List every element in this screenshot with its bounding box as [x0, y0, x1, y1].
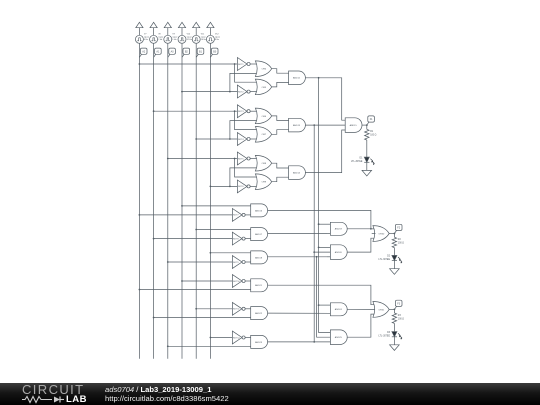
wire XNOR2 to AND24 [318, 304, 331, 306]
svg-text:4 Hz: 4 Hz [144, 39, 148, 41]
input port arrow A1 [150, 22, 157, 35]
inverter NOT10 [232, 275, 250, 288]
wire OR30 output [389, 233, 395, 235]
svg-text:OR6: OR6 [262, 116, 267, 118]
node flag B0 [210, 48, 218, 57]
wire A riser [235, 159, 258, 178]
and-gate AND16 [251, 204, 268, 217]
wire B1 to AND17 [195, 229, 250, 231]
svg-text:OR31: OR31 [379, 309, 385, 311]
inverter NOT8 [232, 232, 250, 245]
svg-text:AND16: AND16 [255, 209, 263, 212]
svg-text:V8: V8 [158, 34, 161, 36]
and-gate AND23 [251, 335, 268, 348]
wire A1 to AND22 [153, 317, 251, 319]
wire OR31 output [389, 309, 395, 311]
voltage source V10 [178, 34, 192, 44]
wire R2 to D2 [393, 248, 395, 256]
wire XNOR1 to AND20 [313, 251, 330, 257]
svg-text:AND13: AND13 [293, 124, 301, 127]
svg-text:NOT10: NOT10 [233, 281, 241, 283]
svg-text:AND22: AND22 [255, 312, 263, 315]
wire XNOR2 to AND19 [318, 223, 331, 233]
svg-text:OR8: OR8 [262, 163, 267, 165]
svg-text:squar: squar [215, 36, 220, 38]
or-gate OR30 [372, 226, 390, 242]
svg-text:OR5: OR5 [262, 87, 267, 89]
svg-text:R2: R2 [398, 239, 402, 241]
svg-text:squar: squar [144, 36, 149, 38]
svg-text:100 Ω: 100 Ω [398, 243, 404, 245]
svg-text:V11: V11 [201, 34, 205, 36]
voltage source V12 [206, 34, 220, 44]
svg-text:NOT8: NOT8 [233, 238, 239, 240]
inverter NOT3 [237, 105, 257, 118]
svg-text:AND19: AND19 [335, 228, 343, 231]
svg-text:AND12: AND12 [293, 77, 301, 80]
node flag F2 [394, 224, 402, 233]
svg-text:NOT2: NOT2 [238, 91, 244, 93]
wire AND18 to AND20 [268, 256, 327, 258]
wire B0 to AND18 [210, 252, 251, 254]
wire A1 to NOT8 [153, 238, 233, 240]
voltage source V7 [135, 34, 149, 44]
input port arrow B0 [207, 22, 214, 35]
and-gate AND14 [289, 166, 306, 180]
node flag B2 [182, 48, 190, 57]
wire A2 to NOT input [139, 63, 238, 65]
wire A0 to NOT9 [167, 261, 232, 263]
svg-text:OR9: OR9 [262, 182, 267, 184]
wire OR to AND [272, 116, 289, 121]
or-gate OR7 [255, 127, 271, 143]
svg-text:AND17: AND17 [255, 233, 263, 236]
and-gate AND13 [289, 118, 306, 132]
svg-text:NOT4: NOT4 [238, 139, 244, 141]
wire AND23 to AND25 [268, 341, 331, 343]
wire D2 to ground [393, 261, 395, 269]
resistor R2 [392, 237, 404, 247]
wire AND17 to AND19 [268, 232, 327, 234]
LED D3 [379, 332, 403, 340]
svg-text:LTL-307EE: LTL-307EE [379, 335, 391, 337]
svg-text:OR7: OR7 [262, 134, 267, 136]
or-gate OR9 [255, 174, 271, 190]
ground [362, 170, 372, 176]
input port arrow A2 [136, 22, 143, 35]
wire B2 to AND16 [181, 205, 251, 207]
wire bus B1 [195, 43, 197, 358]
or-gate OR4 [255, 61, 271, 77]
svg-text:100 Ω: 100 Ω [370, 135, 376, 137]
svg-text:AND14: AND14 [293, 172, 301, 175]
ground [390, 345, 400, 351]
input port arrow A0 [164, 22, 171, 35]
svg-text:OR4: OR4 [262, 69, 267, 71]
inverter NOT1 [237, 58, 257, 71]
svg-text:V7: V7 [144, 34, 147, 36]
and-gate AND12 [289, 71, 306, 85]
svg-text:D3: D3 [387, 332, 391, 334]
svg-text:squar: squar [187, 36, 192, 38]
svg-text:R3: R3 [398, 315, 402, 317]
wire bus B2 [181, 43, 183, 358]
svg-text:NOT1: NOT1 [238, 64, 244, 66]
svg-text:2 Hz: 2 Hz [158, 39, 162, 41]
inverter NOT2 [237, 85, 257, 98]
voltage source V11 [192, 34, 206, 44]
svg-text:LTL-307EE: LTL-307EE [379, 259, 391, 261]
wire OR to AND [272, 69, 289, 74]
wire B0 to NOT12 [210, 337, 233, 339]
resistor R1 [365, 129, 377, 140]
wire B1 to NOT input [195, 138, 237, 140]
svg-text:NOT7: NOT7 [233, 215, 239, 217]
wire AND20 to OR30 [347, 238, 375, 252]
node flag F1 [367, 116, 375, 125]
wire B riser [230, 121, 258, 139]
or-gate OR6 [255, 108, 271, 124]
inverter NOT4 [237, 133, 257, 146]
footer text [105, 385, 229, 403]
wire v3 to AND25 [317, 257, 331, 337]
wire AND14 output [305, 130, 345, 173]
svg-text:squar: squar [201, 36, 206, 38]
and-gate AND24 [330, 303, 347, 316]
wire B2 to NOT10 [181, 280, 232, 282]
svg-text:R1: R1 [370, 131, 374, 133]
wire AND13 output [305, 124, 345, 126]
node flag A1 [154, 48, 162, 57]
svg-text:D2: D2 [387, 256, 391, 258]
wire OR to AND [272, 163, 289, 168]
wire XNOR2 vertical [318, 78, 320, 305]
wire bus A1 [153, 43, 155, 358]
wire AND21 to OR31 [268, 285, 376, 305]
wire OR to AND [272, 177, 289, 182]
wire to R1 [366, 125, 368, 129]
wire A riser [235, 64, 258, 82]
wire to R3 [393, 309, 395, 313]
resistor R3 [392, 313, 404, 323]
and-gate AND19 [330, 222, 347, 235]
wire bus A0 [167, 43, 169, 358]
wire A riser [235, 111, 258, 129]
svg-text:AND24: AND24 [335, 308, 343, 311]
wire bus A2 [138, 43, 140, 358]
svg-text:V9: V9 [172, 34, 175, 36]
wire A1 to NOT input [153, 110, 238, 112]
svg-text:1 Hz: 1 Hz [172, 39, 176, 41]
svg-text:NOT5: NOT5 [238, 158, 244, 160]
svg-text:32 Hz: 32 Hz [187, 39, 192, 41]
wire XNOR2 to AND20 [318, 247, 331, 249]
svg-text:LTL-307EE: LTL-307EE [351, 161, 363, 163]
wire A2 to AND21 [139, 289, 251, 291]
svg-text:D1: D1 [359, 157, 363, 159]
wire OR to AND [272, 130, 289, 135]
wire AND22 to AND24 [268, 312, 331, 314]
svg-text:AND21: AND21 [255, 284, 263, 287]
inverter NOT7 [232, 209, 250, 222]
wire to R2 [393, 234, 395, 238]
node flag B1 [196, 48, 204, 57]
or-gate OR5 [255, 79, 271, 95]
wire AND24 output [347, 308, 375, 310]
wire A0 to AND23 [167, 345, 251, 347]
and-gate AND17 [251, 228, 268, 241]
LED D1 [351, 157, 375, 165]
wire A2 to NOT7 [139, 214, 233, 216]
inverter NOT6 [237, 180, 257, 193]
inverter NOT12 [232, 331, 250, 344]
wire A0 to NOT input [167, 158, 237, 160]
inverter NOT9 [232, 256, 250, 269]
footer bar [0, 383, 540, 405]
wire D3 to ground [393, 337, 395, 345]
voltage source V9 [164, 34, 178, 44]
and-gate AND22 [251, 307, 268, 320]
svg-text:NOT6: NOT6 [238, 186, 244, 188]
svg-text:NOT12: NOT12 [233, 337, 241, 339]
svg-text:squar: squar [172, 36, 177, 38]
wire AND19 output [347, 228, 375, 230]
or-gate OR31 [373, 302, 389, 318]
wire AND25 to OR31 [347, 314, 375, 337]
svg-text:16 Hz: 16 Hz [201, 39, 206, 41]
input port arrow B1 [193, 22, 200, 35]
inverter NOT5 [237, 152, 257, 165]
node flag A2 [139, 48, 147, 57]
wire B1 to NOT11 [195, 308, 232, 310]
wire XNOR2 to AND25 [319, 305, 331, 332]
wire D1 to ground [366, 162, 368, 170]
wire AND16 to OR30 [268, 210, 376, 229]
wire XNOR1 vertical [313, 125, 315, 342]
and-gate AND25 [330, 330, 347, 345]
svg-text:AND25: AND25 [335, 336, 343, 339]
wire R3 to D3 [393, 323, 395, 331]
svg-text:AND15: AND15 [350, 124, 358, 127]
svg-text:NOT11: NOT11 [233, 309, 240, 311]
wire AND15 output [362, 124, 368, 126]
svg-text:V12: V12 [215, 34, 219, 36]
and-gate AND20 [330, 245, 347, 260]
and-gate AND15 [345, 118, 362, 133]
svg-text:AND18: AND18 [255, 256, 263, 259]
svg-text:AND20: AND20 [335, 251, 343, 254]
ground [390, 269, 400, 275]
svg-text:V10: V10 [187, 34, 191, 36]
inverter NOT11 [232, 302, 250, 315]
wire OR to AND [272, 82, 289, 87]
svg-text:NOT3: NOT3 [238, 111, 244, 113]
node flag A0 [168, 48, 176, 57]
svg-text:OR30: OR30 [379, 233, 385, 235]
voltage source V8 [150, 34, 164, 44]
wire B riser [230, 73, 258, 91]
wire B riser [230, 168, 258, 187]
svg-text:squar: squar [158, 36, 163, 38]
and-gate AND18 [251, 251, 268, 264]
LED D2 [379, 255, 403, 263]
wire B2 to NOT input [181, 91, 237, 93]
or-gate OR8 [255, 155, 271, 171]
wire R1 to D1 [366, 140, 368, 157]
svg-text:8 Hz: 8 Hz [215, 39, 219, 41]
svg-text:NOT9: NOT9 [233, 262, 239, 264]
wire B0 to NOT input [210, 186, 238, 188]
and-gate AND21 [251, 279, 268, 292]
wire AND12 output [305, 77, 345, 120]
CircuitLab logo [22, 384, 96, 404]
svg-text:AND23: AND23 [255, 341, 263, 344]
input port arrow B2 [178, 22, 185, 35]
svg-text:100 Ω: 100 Ω [398, 318, 404, 320]
node flag F3 [394, 300, 402, 309]
wire bus B0 [209, 43, 211, 358]
